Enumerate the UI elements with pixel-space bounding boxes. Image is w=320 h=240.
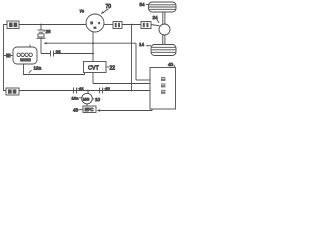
svg-text:28: 28 (56, 50, 62, 55)
svg-text:14: 14 (139, 42, 145, 47)
label 12a with tick (29, 66, 42, 73)
wire rail2 (41, 53, 93, 55)
wire top rail to engine circle (19, 24, 86, 26)
axle shaft lower (163, 35, 165, 45)
label 70 with arrow (101, 4, 111, 14)
node bus/MG (87, 90, 89, 92)
label 14 (139, 42, 151, 47)
wheel 54 (top tire) (149, 2, 177, 12)
CVT box 22 (84, 62, 107, 73)
node rail2 / engine shaft (92, 53, 94, 55)
wire battery down to rail2 (40, 38, 42, 53)
wire left bus from box 50 down to box 51 (4, 25, 8, 91)
wire stub S1 to control box (136, 79, 150, 81)
damper box 64 (113, 22, 122, 29)
svg-text:61: 61 (79, 86, 84, 91)
svg-text:40: 40 (168, 62, 174, 67)
clutch 62 (100, 88, 103, 94)
wheel 14 (bottom tire) (151, 45, 176, 56)
gear box 66 (141, 22, 151, 29)
component box 50 (top-left) (7, 21, 19, 29)
node rail1 / engine shaft (92, 42, 94, 44)
node at battery branch (40, 24, 42, 26)
capacitor 28 (51, 51, 54, 57)
label 10 (93, 97, 101, 102)
battery 26 branch wire (40, 25, 42, 31)
svg-text:12a: 12a (34, 66, 42, 71)
axle shaft upper (163, 12, 165, 25)
label 26 (44, 29, 52, 34)
label 22 (107, 65, 116, 71)
svg-text:62: 62 (105, 86, 110, 91)
label 62 (104, 86, 111, 91)
clutch 61 (74, 88, 77, 94)
wire engine circle right to box 64 (104, 24, 113, 26)
node V1 top (131, 24, 133, 26)
engine/motor circle 70 (86, 14, 104, 32)
label 24 with tick (153, 15, 160, 23)
battery 26 (37, 30, 46, 38)
differential circle (159, 24, 170, 35)
wire MG to EFC (86, 104, 88, 106)
svg-text:MG: MG (83, 96, 89, 101)
svg-text:24: 24 (153, 15, 159, 20)
svg-text:EFC: EFC (85, 107, 94, 112)
svg-text:76: 76 (80, 9, 85, 14)
engine 12 block (13, 45, 37, 64)
svg-text:54: 54 (140, 2, 146, 7)
control unit box 40 (150, 68, 176, 110)
svg-text:16a: 16a (72, 96, 79, 101)
wire V2 vertical from rail1 (135, 43, 137, 80)
wire CVT bottom to control line (92, 73, 94, 84)
sensor stub on engine left (4, 53, 14, 57)
label 54 (140, 2, 150, 7)
wire CVT control line to control box (93, 83, 150, 85)
wire control box to EFC with arrowhead (97, 109, 152, 112)
wire engine circle down shaft to CVT (92, 32, 94, 62)
svg-text:CVT: CVT (88, 65, 99, 71)
label 40 (168, 62, 175, 68)
wire rail1 with left arrowhead (44, 42, 136, 44)
EFC box 43 (83, 106, 96, 113)
node bus/V1 (131, 90, 133, 92)
motor generator MG 10 (82, 93, 93, 104)
wire engine 12 output to CVT (24, 64, 85, 75)
wire bus to MG (87, 91, 89, 94)
svg-text:26: 26 (46, 29, 52, 34)
wire V1 vertical (131, 25, 133, 91)
svg-text:43: 43 (73, 107, 79, 112)
label 61 (78, 86, 85, 91)
wire box 66 to differential (151, 25, 160, 26)
svg-text:10: 10 (95, 97, 101, 102)
svg-text:22: 22 (110, 65, 116, 71)
component box 51 (bottom-left) (6, 88, 19, 95)
wire bottom bus (19, 90, 150, 92)
label 16a (72, 96, 82, 101)
wire box 64 to box 66 (122, 24, 141, 26)
label 43 (73, 107, 83, 112)
